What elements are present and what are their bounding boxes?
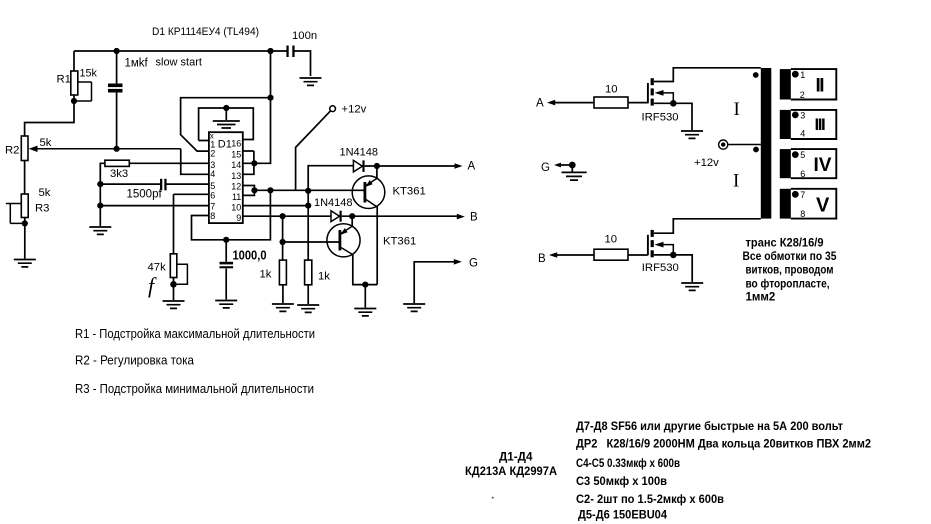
node top-left junction — [114, 48, 120, 54]
drain wire — [654, 219, 761, 233]
svg-text:B: B — [538, 253, 546, 265]
svg-text:1мм2: 1мм2 — [746, 292, 776, 304]
svg-text:R3: R3 — [35, 203, 49, 215]
node pin9 tap — [280, 213, 286, 219]
node diode/emitter lower — [349, 213, 355, 219]
svg-text:1N4148: 1N4148 — [314, 197, 353, 209]
svg-text:транс К28/16/9: транс К28/16/9 — [746, 238, 824, 250]
node outer bracket/rail — [267, 95, 273, 101]
resistor R1 — [73, 51, 75, 101]
capacitor C slow-start 1mkf — [116, 51, 118, 149]
capacitor 1000,0 — [225, 240, 227, 300]
svg-text:С3 50мкф х 100в: С3 50мкф х 100в — [576, 474, 667, 488]
rail +12v vertical x=270.5 — [243, 51, 271, 163]
node lower base — [280, 239, 286, 245]
wire lower base line — [283, 241, 340, 243]
svg-text:10: 10 — [605, 84, 618, 96]
svg-text:III: III — [815, 115, 825, 134]
svg-text:I: I — [733, 171, 739, 192]
svg-text:витков, проводом: витков, проводом — [746, 265, 834, 277]
wire +12v diagonal — [296, 111, 331, 191]
drain wire — [654, 68, 761, 82]
svg-text:R1 - Подстройка максимальной д: R1 - Подстройка максимальной длительност… — [75, 327, 315, 341]
svg-text:14: 14 — [231, 160, 241, 170]
source arrow — [655, 242, 664, 248]
svg-text:5: 5 — [210, 181, 215, 191]
svg-text:1мkf: 1мkf — [125, 58, 149, 70]
ground — [215, 301, 237, 308]
secondary winding IV — [780, 149, 837, 179]
source wire to ground — [654, 255, 692, 282]
stray dot — [492, 497, 494, 499]
svg-text:A: A — [536, 98, 544, 110]
svg-text:KT361: KT361 — [393, 186, 426, 198]
wire top rail y=51 — [74, 50, 288, 52]
svg-text:2: 2 — [210, 149, 215, 159]
node +12v terminal — [330, 106, 336, 112]
wire rail to ground — [99, 184, 101, 226]
node pin7 junction — [97, 203, 103, 209]
svg-text:G: G — [469, 258, 478, 270]
svg-text:3k3: 3k3 — [110, 168, 128, 180]
resistor 10 (B gate) — [594, 249, 628, 260]
svg-text:Д7-Д8 SF56 или другие быстрые: Д7-Д8 SF56 или другие быстрые на 5А 200 … — [576, 419, 843, 433]
47k wiper tap — [174, 264, 188, 284]
svg-text:IRF530: IRF530 — [642, 262, 679, 274]
svg-text:I: I — [734, 99, 740, 120]
secondary winding V — [780, 189, 837, 219]
transistor Q2 KT361 lower — [327, 224, 360, 257]
node diode/emitter — [374, 163, 380, 169]
svg-text:6: 6 — [210, 191, 215, 201]
svg-text:47k: 47k — [148, 262, 167, 274]
svg-text:R2 - Регулировка тока: R2 - Регулировка тока — [75, 354, 194, 368]
secondary winding II — [780, 69, 837, 100]
svg-text:R3 - Подстройка минимальной дл: R3 - Подстройка минимальной длительности — [75, 382, 314, 396]
op-amp U1 / IC D1 box — [209, 132, 243, 223]
node cap/R2 wire junction — [114, 146, 120, 152]
svg-text:С4-С5 0.33мкф х 600в: С4-С5 0.33мкф х 600в — [576, 456, 680, 470]
node bracket ground — [223, 105, 229, 111]
wire R2 wiper to pin 4 — [181, 149, 209, 175]
R2 wiper arrow — [35, 148, 181, 150]
svg-text:11: 11 — [232, 192, 241, 202]
resistor 1k (left) — [279, 260, 286, 285]
svg-text:16: 16 — [231, 139, 241, 149]
svg-text:2: 2 — [800, 90, 805, 100]
ground on bracket — [225, 108, 227, 120]
potentiometer R3 — [21, 194, 28, 218]
svg-text:15k: 15k — [80, 68, 98, 80]
svg-text:V: V — [816, 195, 830, 217]
resistor 10 (A gate) — [594, 97, 628, 108]
resistor 3k3 — [100, 163, 209, 184]
svg-text:13: 13 — [231, 171, 241, 181]
svg-text:8: 8 — [800, 209, 805, 219]
R3 wiper wire — [6, 204, 25, 224]
svg-text:1500pf: 1500pf — [127, 189, 163, 201]
resistor 47k — [174, 194, 209, 300]
svg-text:4: 4 — [210, 169, 215, 179]
capacitor 1500pf — [100, 183, 209, 185]
svg-text:IRF530: IRF530 — [642, 112, 679, 124]
svg-text:7: 7 — [800, 190, 805, 200]
svg-text:slow start: slow start — [156, 57, 202, 69]
svg-text:1k: 1k — [260, 269, 272, 281]
wire R2 to R3 — [24, 161, 26, 195]
transistor IRF530 upper — [647, 83, 649, 103]
svg-text:R1: R1 — [57, 74, 71, 86]
svg-text:Все обмотки по 35: Все обмотки по 35 — [743, 251, 838, 263]
svg-text:1N4148: 1N4148 — [340, 147, 379, 159]
svg-text:1k: 1k — [318, 271, 330, 283]
svg-text:+12v: +12v — [342, 104, 367, 116]
resistor 1k (right) — [305, 260, 312, 285]
svg-text:6: 6 — [800, 169, 805, 179]
wire pin10 — [243, 205, 308, 207]
svg-text:3: 3 — [800, 110, 805, 120]
svg-text:КД213А КД2997А: КД213А КД2997А — [465, 464, 557, 478]
svg-text:KT361: KT361 — [383, 236, 416, 248]
source arrow — [655, 90, 664, 96]
wire collectors to ground — [364, 285, 366, 308]
vertical x=308.2 diode feed and 1k — [308, 166, 353, 260]
node rail lower — [267, 187, 273, 193]
node base/diode vertical — [305, 188, 311, 194]
svg-text:II: II — [816, 75, 825, 96]
svg-text:Д1-Д4: Д1-Д4 — [499, 450, 533, 464]
ground — [163, 301, 185, 308]
svg-text:С2- 2шт по 1.5-2мкф х 600в: С2- 2шт по 1.5-2мкф х 600в — [576, 492, 724, 506]
node phasing dot middle — [753, 147, 759, 153]
svg-text:7: 7 — [210, 202, 215, 212]
node 3k3/1500pf junction — [97, 181, 103, 187]
ground — [14, 260, 36, 267]
transistor IRF530 lower — [647, 235, 649, 255]
wire base line y=190.3 — [254, 189, 364, 191]
svg-text:10: 10 — [605, 234, 618, 246]
svg-text:1: 1 — [800, 70, 805, 80]
svg-text:+12v: +12v — [694, 157, 719, 169]
transistor Q1 KT361 upper — [352, 176, 385, 209]
wire outer bracket to pin 2 — [181, 98, 271, 151]
source wire to ground — [654, 103, 692, 130]
secondary winding III — [780, 110, 837, 139]
svg-text:G: G — [541, 162, 550, 174]
ground — [89, 227, 111, 234]
svg-text:5k: 5k — [40, 137, 52, 149]
svg-text:D1 КР1114ЕУ4 (TL494): D1 КР1114ЕУ4 (TL494) — [152, 26, 259, 38]
svg-text:10: 10 — [231, 203, 241, 213]
svg-text:9: 9 — [236, 213, 241, 223]
svg-text:Д5-Д6 150EBU04: Д5-Д6 150EBU04 — [578, 508, 667, 522]
svg-text:во фторопласте,: во фторопласте, — [746, 279, 830, 291]
svg-text:R2: R2 — [5, 145, 19, 157]
wire rail lower to pin8 loop — [192, 190, 271, 240]
svg-text:8: 8 — [210, 211, 215, 221]
svg-text:12: 12 — [231, 182, 241, 192]
transformer primary winding I — [761, 68, 772, 219]
wire pin15 pin13 tie — [243, 151, 254, 174]
node pin11/12 — [251, 187, 257, 193]
wire output G — [414, 262, 456, 303]
svg-text:1000,0: 1000,0 — [233, 249, 267, 263]
node 100n junction — [267, 48, 273, 54]
wire pin 7 — [100, 205, 209, 207]
node phasing dot top — [753, 72, 759, 78]
svg-text:5k: 5k — [39, 187, 51, 199]
wire R1 bottom to R2 top — [25, 101, 74, 136]
svg-text:D1: D1 — [218, 139, 232, 151]
wire pin9 to diode — [243, 215, 331, 217]
svg-text:B: B — [470, 212, 478, 224]
wire R3 to ground — [24, 218, 26, 259]
node collectors join — [362, 282, 368, 288]
node pin14/15/13 — [251, 160, 257, 166]
potentiometer R2 — [21, 136, 28, 161]
svg-text:A: A — [468, 161, 476, 173]
svg-text:IV: IV — [814, 155, 832, 176]
node 1000,0 junction — [223, 237, 229, 243]
wire inner bracket pins 1,16 — [199, 108, 254, 141]
svg-text:100n: 100n — [292, 30, 317, 42]
+12v center tap — [728, 144, 761, 146]
node pin10/vertical — [305, 203, 311, 209]
svg-text:5: 5 — [800, 150, 805, 160]
wire pin12/pin11 tie — [243, 186, 255, 196]
svg-text:15: 15 — [231, 150, 241, 160]
ground — [300, 78, 322, 85]
svg-text:ДР2 К28/16/9 2000НМ Два коль: ДР2 К28/16/9 2000НМ Два кольца 20витков … — [576, 436, 871, 450]
svg-text:4: 4 — [800, 128, 805, 138]
vertical x=282.6 to 1k — [282, 216, 284, 260]
